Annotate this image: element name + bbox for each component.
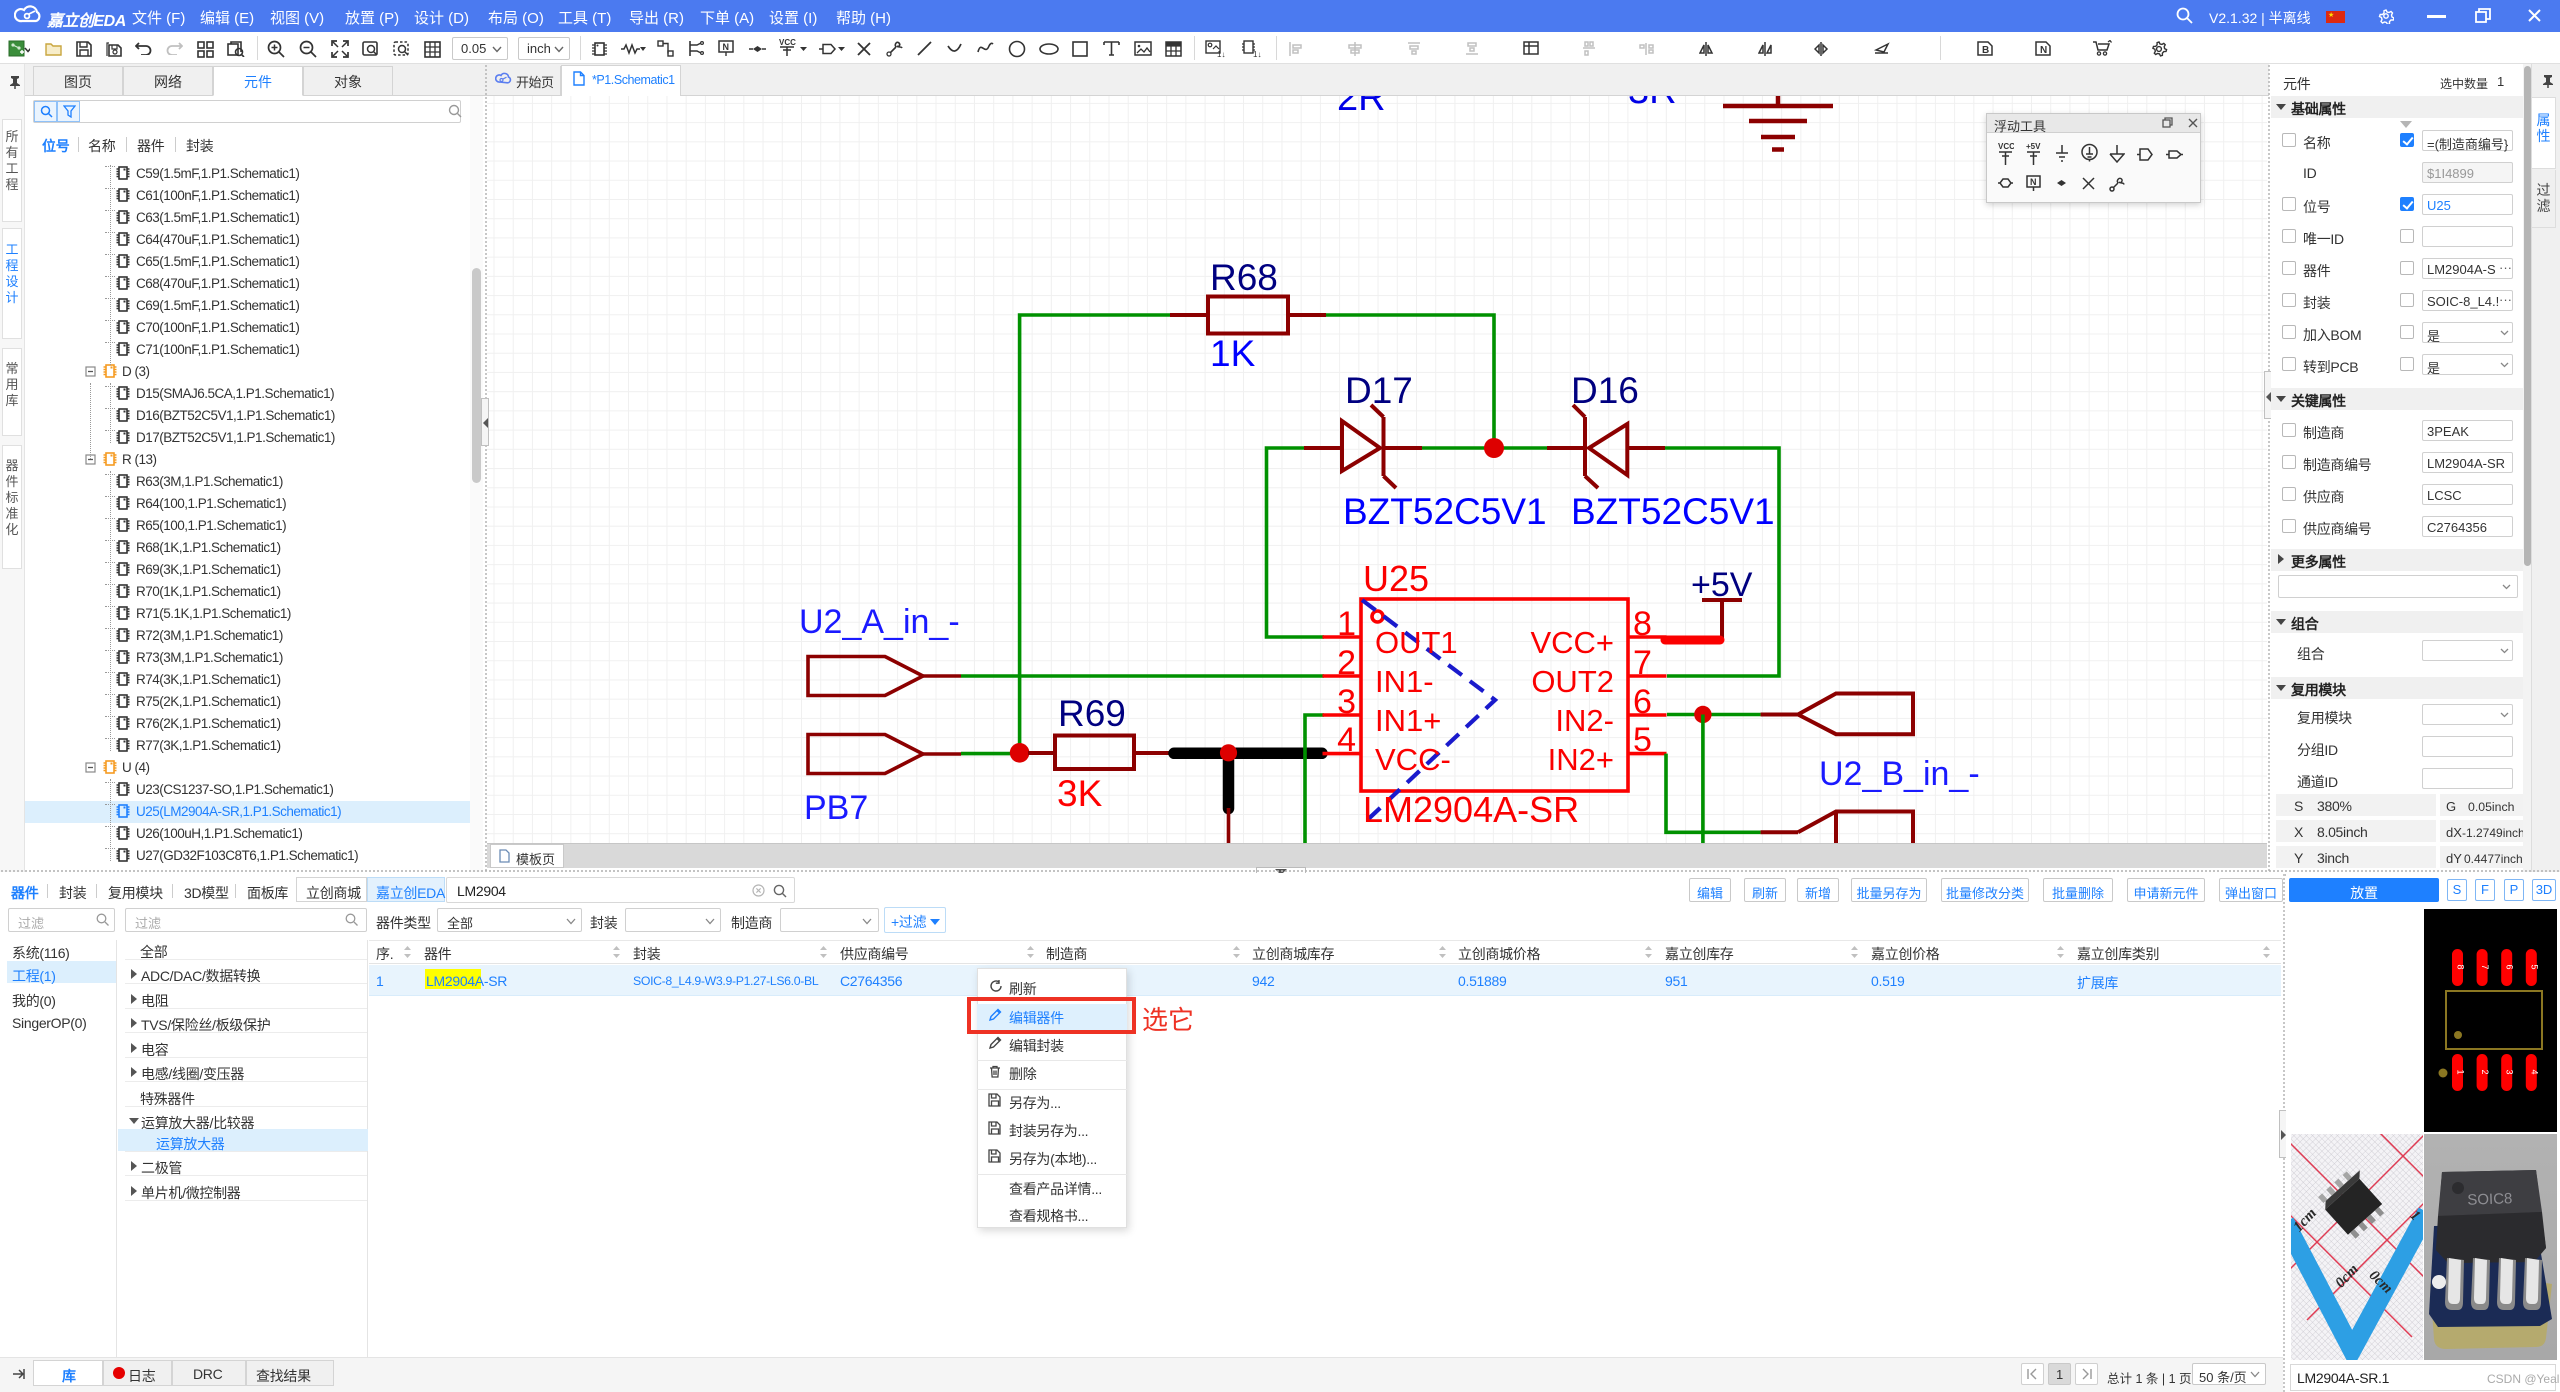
svg-text:1↓: 1↓ [1217, 50, 1225, 58]
svg-text:2: 2 [2480, 1069, 2490, 1074]
junction R69 left [1010, 743, 1030, 763]
svg-text:1: 1 [2456, 1069, 2466, 1074]
wire D17 anode / pin1 [1267, 448, 1325, 637]
svg-text:2: 2 [1337, 644, 1356, 682]
svg-text:PB7: PB7 [804, 789, 868, 827]
port flag bottom (clipped) [1761, 812, 1913, 853]
svg-text:5: 5 [1633, 721, 1652, 759]
junction diodes [1484, 438, 1504, 458]
canvas bottom strip + 模板页 tab [487, 843, 2267, 868]
ground [1723, 88, 1833, 150]
wire pin6 to port [1667, 713, 1761, 717]
svg-text:6: 6 [2505, 964, 2515, 969]
svg-text:VCC: VCC [779, 38, 796, 47]
U25 labels and pin numbers [1337, 558, 1652, 830]
junction pin6 [1694, 706, 1711, 723]
svg-text:B: B [1982, 45, 1989, 56]
svg-text:5: 5 [2529, 964, 2539, 969]
svg-text:D17: D17 [1345, 370, 1413, 411]
svg-text:IN1+: IN1+ [1375, 703, 1441, 738]
svg-text:6: 6 [1633, 683, 1652, 721]
svg-text:U25: U25 [1363, 558, 1429, 599]
port flag U2_A_in_- [808, 657, 961, 696]
svg-text:1↓: 1↓ [1253, 50, 1261, 58]
wire junction down and across [1701, 715, 1705, 849]
wire pin2 [961, 674, 1324, 678]
svg-text:U2_A_in_-: U2_A_in_- [799, 603, 960, 641]
svg-text:OUT2: OUT2 [1531, 664, 1614, 699]
svg-text:U2_B_in_-: U2_B_in_- [1819, 755, 1980, 793]
wire between diodes [1422, 446, 1547, 450]
svg-text:IN2-: IN2- [1555, 703, 1614, 738]
wire D16 anode to pin7 [1665, 448, 1779, 676]
wire PB7 to junction [961, 752, 1020, 756]
svg-text:R68: R68 [1210, 257, 1278, 298]
floating tool dialog [1986, 113, 2201, 203]
svg-text:+5V: +5V [2026, 142, 2041, 151]
svg-text:IN1-: IN1- [1375, 664, 1434, 699]
svg-text:3: 3 [1337, 683, 1356, 721]
wire R68 right [1326, 315, 1494, 448]
canvas left splitter handle [481, 398, 489, 446]
search row [33, 100, 461, 123]
tree [0, 0, 2560, 1]
svg-text:3R: 3R [1628, 96, 1677, 112]
junction pin4 [1220, 744, 1237, 761]
svg-text:1K: 1K [1210, 333, 1256, 374]
canvas right divider [2268, 64, 2270, 872]
svg-text:D16: D16 [1571, 370, 1639, 411]
svg-text:N: N [2040, 45, 2047, 56]
svg-text:BZT52C5V1: BZT52C5V1 [1571, 491, 1775, 532]
svg-text:N: N [723, 42, 730, 52]
svg-text:3K: 3K [1057, 773, 1103, 814]
svg-text:8: 8 [1633, 605, 1652, 643]
thick red wire pin8 [1665, 636, 1720, 645]
svg-text:N: N [2030, 177, 2037, 187]
thick black wire pin4 [1174, 748, 1322, 760]
svg-text:LM2904A-SR: LM2904A-SR [1363, 789, 1579, 830]
svg-text:8: 8 [2456, 964, 2466, 969]
diode D16 [1547, 405, 1665, 488]
wire pin5 down [1666, 754, 1761, 833]
port flag U2_B_in_- top [1761, 694, 1913, 735]
svg-text:2R: 2R [1337, 96, 1386, 119]
svg-text:R69: R69 [1058, 693, 1126, 734]
svg-text:OUT1: OUT1 [1375, 625, 1458, 660]
svg-text:IN2+: IN2+ [1548, 742, 1614, 777]
svg-text:7: 7 [1633, 644, 1652, 682]
resistor R69 [1028, 736, 1172, 770]
wire R68 left [1020, 315, 1170, 754]
svg-text:BZT52C5V1: BZT52C5V1 [1343, 491, 1547, 532]
resistor R68 [1170, 297, 1326, 334]
port flag PB7 [808, 735, 961, 774]
tab row [25, 64, 487, 96]
svg-text:3: 3 [2505, 1069, 2515, 1074]
svg-text:4: 4 [1337, 721, 1356, 759]
diode D17 [1304, 405, 1422, 488]
svg-text:VCC+: VCC+ [1530, 625, 1614, 660]
svg-text:SOIC8: SOIC8 [2467, 1190, 2513, 1209]
svg-text:VCC-: VCC- [1375, 742, 1451, 777]
svg-text:4: 4 [2529, 1069, 2539, 1074]
svg-text:VCC: VCC [1998, 142, 2014, 151]
U25 dashed triangle [1362, 600, 1495, 825]
位号 名称 器件 封装 [42, 136, 69, 156]
svg-text:7: 7 [2480, 964, 2490, 969]
left panel scrollbar [470, 96, 483, 872]
op-amp U25 symbol [1323, 599, 1667, 791]
svg-text:1: 1 [1337, 605, 1356, 643]
wire pin3 [1305, 715, 1324, 846]
